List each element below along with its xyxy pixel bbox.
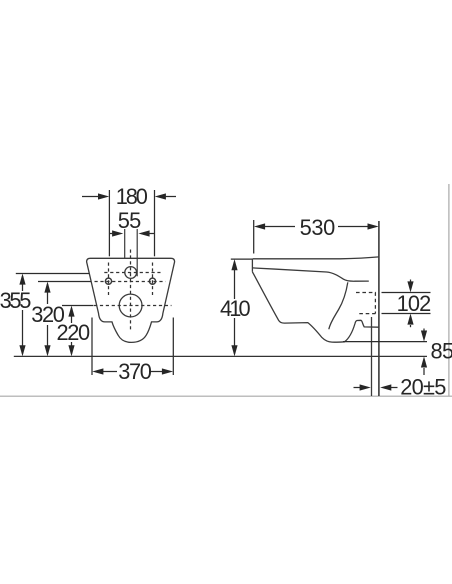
- svg-text:180: 180: [116, 184, 148, 209]
- svg-text:370: 370: [118, 359, 151, 384]
- svg-text:102: 102: [397, 291, 431, 316]
- svg-text:355: 355: [0, 288, 31, 313]
- svg-text:410: 410: [220, 296, 250, 321]
- svg-text:55: 55: [118, 208, 141, 233]
- svg-text:530: 530: [300, 215, 335, 240]
- svg-text:20±5: 20±5: [400, 375, 446, 400]
- svg-text:85: 85: [431, 339, 452, 364]
- svg-text:220: 220: [57, 320, 90, 345]
